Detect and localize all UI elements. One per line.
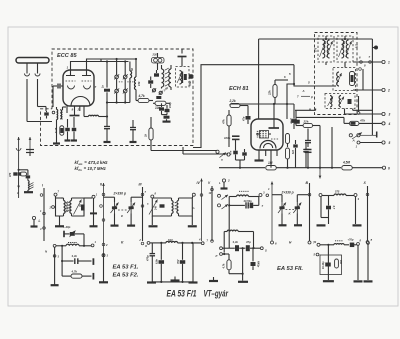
label 7: [262, 204, 264, 208]
annotation A: [302, 89, 305, 93]
gang link dashed: [118, 210, 128, 218]
variable capacitor gang B: [127, 197, 142, 225]
capacitor C27 3,3n chain: [220, 245, 267, 252]
rail mid: [228, 197, 230, 249]
capacitor ant series: [9, 172, 21, 178]
label 2x330p b: [281, 190, 294, 194]
label ECH 81: [229, 86, 249, 92]
svg-text:575: 575: [355, 44, 358, 49]
wire grid feed: [63, 107, 67, 110]
terminal 5: [382, 141, 391, 145]
rail B: [306, 181, 316, 245]
capacitor C13 100p: [303, 143, 309, 168]
svg-text:575: 575: [335, 190, 340, 194]
capacitor ratio det: [183, 72, 187, 84]
resistor R1 4,7k: [136, 94, 153, 103]
label K: [121, 241, 124, 245]
svg-text:10-40p: 10-40p: [322, 261, 325, 269]
tube ECC85 anode right: [82, 71, 91, 76]
terminal 4: [382, 122, 391, 126]
svg-text:4,7: 4,7: [332, 205, 335, 210]
wire: [157, 53, 159, 70]
svg-text:A: A: [302, 89, 305, 93]
wire: [364, 244, 373, 281]
terminal 5 wire: [356, 141, 382, 149]
label EA 53 F/1 VT-gyar: [167, 289, 229, 300]
label 2x330p: [113, 192, 127, 196]
capacitor FM ant coupling: [44, 112, 49, 115]
pin labels 9 2: [72, 108, 80, 112]
svg-text:22k: 22k: [268, 90, 272, 96]
terminal 1: [382, 60, 390, 64]
capacitor C10 100p: [224, 136, 240, 147]
label +-20p: [63, 225, 71, 229]
rail II: [100, 183, 108, 254]
svg-text:g: g: [120, 214, 123, 218]
svg-text:EA 53 F/1: EA 53 F/1: [167, 289, 197, 300]
variable capacitor gang C1: [272, 195, 287, 226]
resistor R2 10k: [153, 101, 170, 110]
capacitor C11 220p: [290, 116, 297, 129]
coil IF1 primary: [320, 40, 326, 58]
capacitor C20 470p: [147, 243, 156, 282]
switch band sel: [349, 132, 377, 143]
wire IF out lower: [183, 147, 228, 154]
ground: [209, 277, 218, 281]
capacitor pad: [84, 193, 98, 214]
variable capacitor FM tune b: [123, 62, 128, 103]
core T2 dots: [174, 202, 176, 211]
resistor R9 1M: [266, 161, 341, 170]
terminal: [53, 255, 59, 259]
tube ECH81 grids: [257, 131, 267, 137]
svg-text:1n: 1n: [102, 85, 105, 88]
capacitor C4: [159, 103, 167, 114]
dashed box ratio det can: [176, 67, 190, 88]
capacitor C25 70p: [348, 238, 357, 247]
coil row3: [320, 241, 349, 245]
terminal 8b: [357, 238, 362, 245]
wire IF out upper: [151, 150, 217, 152]
label 2-8p: [162, 85, 170, 93]
coil oscillator: [89, 115, 99, 116]
coil FM antenna L2: [61, 110, 62, 119]
svg-text:3,3n: 3,3n: [72, 254, 78, 258]
svg-text:1M: 1M: [268, 161, 273, 165]
resistor R3 1k: [144, 117, 154, 151]
wire bus upper: [101, 58, 137, 63]
svg-text:610: 610: [168, 238, 173, 242]
wire AVC down: [319, 128, 321, 169]
svg-text:β: β: [310, 95, 313, 99]
tube ECC85 inner arc: [71, 97, 90, 107]
wire det out: [353, 55, 382, 68]
wire branch: [18, 169, 28, 176]
resistor R14 4,7k: [223, 254, 232, 274]
svg-text:2,2k: 2,2k: [229, 99, 236, 103]
annotation 7: [297, 95, 313, 99]
rail IV: [197, 179, 203, 242]
antenna arrow aux: [29, 137, 32, 156]
capacitor C cath2: [71, 117, 77, 141]
tube ECC85 grid right: [82, 80, 92, 82]
coil osc tuning: [134, 59, 141, 101]
capacitor IF3: [350, 72, 355, 86]
terminal: [216, 253, 230, 258]
svg-text:A: A: [352, 139, 355, 143]
gang link dashed C: [286, 210, 295, 216]
wire: [354, 245, 363, 281]
dashed box IF can1: [318, 36, 334, 62]
core T1: [64, 202, 70, 212]
svg-text:L: L: [39, 219, 41, 223]
wire anode right to bus: [87, 59, 137, 71]
svg-text:40-50p: 40-50p: [243, 199, 253, 203]
coil L det: [152, 53, 165, 64]
terminal 3b: [259, 191, 265, 197]
svg-text:3: 3: [389, 113, 391, 117]
tube ECH81 triode grid: [256, 131, 279, 140]
label 47p b: [245, 240, 251, 244]
capacitor C6b: [148, 77, 153, 89]
label N: [45, 250, 48, 254]
label H: [289, 241, 292, 245]
variable capacitor gang A: [104, 197, 119, 225]
capacitor C6a 68p: [154, 70, 159, 77]
wire dipole left lead: [25, 63, 30, 122]
terminal 2 gnd: [219, 179, 230, 189]
wire det out 2: [353, 68, 382, 90]
svg-text:100p: 100p: [224, 136, 231, 140]
svg-text:1: 1: [388, 61, 390, 65]
resistor R12 47k: [344, 117, 382, 125]
capacitor C17: [305, 129, 311, 148]
svg-text:47k: 47k: [222, 119, 226, 125]
terminal 3: [382, 112, 391, 116]
svg-text:VT–gyár: VT–gyár: [204, 289, 229, 300]
wire dipole right lead: [35, 63, 40, 107]
label EA 53 FII: [277, 266, 303, 272]
box padder unit: [320, 255, 342, 275]
chain x104: [99, 253, 109, 282]
ground: [317, 197, 329, 226]
capacitor grid left: [53, 84, 63, 108]
antenna arrow main: [16, 137, 21, 198]
dipole antenna bar: [16, 58, 49, 64]
arrow down: [17, 176, 20, 195]
coil IF4 secondary: [339, 96, 345, 108]
svg-text:4,7k: 4,7k: [138, 94, 145, 98]
capacitor C cath1: [65, 119, 71, 141]
wire to FM input coil: [38, 107, 47, 112]
coil T1 secondary loop: [70, 198, 84, 216]
capacitor C5 1n: [130, 120, 137, 142]
capacitor C14 47n: [230, 147, 238, 160]
tube ECH81 envelope: [251, 119, 283, 150]
svg-text:1.: 1.: [17, 191, 20, 195]
wire terminal3: [345, 109, 382, 115]
dashed box IF can3: [333, 68, 356, 91]
rail III: [139, 183, 147, 245]
dashed box ECC85 unit: [41, 49, 194, 146]
svg-text:g: g: [144, 244, 147, 248]
variable capacitor gang C2: [293, 195, 308, 226]
resistor ant: [20, 172, 27, 176]
svg-text:2: 2: [227, 179, 230, 183]
svg-text:5: 5: [389, 141, 391, 145]
ferrite bead T2: [160, 204, 165, 207]
svg-text:150p: 150p: [188, 81, 191, 87]
svg-text:150: 150: [137, 81, 141, 86]
coil IF4 primary: [328, 96, 334, 108]
label IF2: [355, 44, 358, 49]
wire osc out vertical: [193, 65, 294, 148]
svg-text:S: S: [265, 249, 267, 253]
capacitor ant aux: [26, 150, 34, 157]
rail V: [208, 181, 213, 242]
wire plate to IF: [259, 39, 373, 119]
coil discr primary: [162, 65, 164, 89]
trimmer capacitor: [54, 126, 64, 136]
capacitor C7: [156, 96, 161, 99]
tube ECC85 cathode right: [84, 86, 91, 90]
resistor R7: [286, 133, 290, 147]
capacitor C24 45p: [251, 248, 260, 270]
terminal T2 out: [192, 193, 195, 198]
resistor R4 2,2k: [229, 99, 249, 111]
wire pins down: [266, 151, 277, 168]
svg-text:47k: 47k: [291, 149, 294, 155]
svg-text:650: 650: [339, 260, 342, 265]
pin 7 label: [95, 85, 97, 89]
terminal 7b: [367, 238, 373, 244]
svg-text:+-20p: +-20p: [63, 225, 71, 229]
svg-text:47k: 47k: [359, 118, 365, 122]
pin 1 label: [67, 66, 69, 70]
wire: [51, 247, 59, 285]
wire: [101, 59, 107, 88]
resistor R10 4,5M: [342, 161, 383, 170]
wire: [371, 130, 373, 135]
svg-text:N45p: N45p: [257, 261, 260, 268]
svg-text:L: L: [219, 181, 221, 185]
ferrite bead T1: [78, 204, 85, 211]
coil IF2 secondary: [346, 40, 352, 58]
terminal 5b: [314, 253, 319, 257]
svg-text:70V: 70V: [177, 259, 180, 264]
terminal 2 tap: [49, 206, 56, 210]
capacitor series a: [230, 202, 249, 208]
svg-text:g: g: [314, 240, 317, 244]
label 3,3n: [72, 254, 78, 258]
switch k1: [218, 194, 229, 199]
tube ECH81 inner arc: [260, 141, 276, 149]
ground bus row3: [147, 281, 198, 283]
svg-text:P: P: [216, 254, 218, 258]
svg-text:220p: 220p: [290, 117, 293, 124]
label IF freq line2: [75, 166, 107, 172]
capacitor C9 47p: [243, 111, 251, 124]
terminal 6: [382, 166, 390, 170]
wire gang bottom bus: [107, 101, 130, 103]
wire: [323, 244, 334, 282]
trimmer 20p: [64, 231, 84, 246]
trimmer discr a: [152, 88, 156, 92]
resistor R13 4,7k: [61, 246, 93, 280]
label EA 53 F2: [113, 273, 139, 279]
label 150p: [188, 81, 191, 87]
terminal T2 in: [147, 192, 157, 206]
capacitor C1 1n: [102, 85, 111, 118]
trimmer discr b: [159, 91, 163, 95]
capacitor C16: [294, 120, 300, 124]
capacitor series b: [250, 197, 259, 209]
ground: [90, 213, 98, 226]
wire can tops: [325, 36, 346, 68]
wire: [192, 243, 194, 282]
svg-text:220: 220: [152, 53, 158, 57]
coil T1 primary loop: [56, 198, 66, 216]
capacitor C15: [236, 149, 247, 168]
wire: [294, 65, 334, 86]
svg-text:240: 240: [155, 205, 158, 211]
capacitor C8 150p: [165, 102, 173, 115]
capacitor det gnd: [163, 115, 171, 122]
label 40-50p: [243, 199, 253, 203]
capacitor C3 50p: [130, 62, 134, 103]
wire screen feed: [230, 103, 294, 119]
svg-text:EA 53 F1.: EA 53 F1.: [113, 265, 139, 271]
resistor R6 22k: [268, 72, 292, 104]
rail X: [363, 181, 373, 243]
capacitor C12: [293, 140, 298, 168]
coil AM ant: [28, 178, 34, 191]
capacitor cathode bypass: [70, 107, 80, 116]
coil T2 secondary loop: [177, 198, 196, 216]
terminal g: [314, 240, 321, 247]
svg-text:150p: 150p: [169, 102, 172, 108]
coil IF2 primary: [339, 40, 345, 58]
rail I: [40, 184, 45, 242]
svg-text:4,7k: 4,7k: [71, 269, 78, 273]
label 5: [308, 81, 310, 85]
svg-text:575: 575: [315, 47, 318, 52]
resistor R11 22k: [296, 117, 320, 128]
capacitor top bar: [178, 49, 187, 67]
rail VI: [266, 182, 277, 246]
svg-text:ECH 81: ECH 81: [229, 86, 249, 92]
wire to FM input coil lower: [27, 121, 52, 123]
svg-text:47p: 47p: [245, 240, 251, 244]
svg-text:4,5M: 4,5M: [342, 161, 350, 165]
arrow AVC to lower: [319, 169, 322, 179]
terminal T1 in: [54, 190, 60, 199]
capacitor C26 10-40p: [322, 261, 331, 269]
capacitor C18: [305, 150, 312, 169]
svg-text:EA 53 FII.: EA 53 FII.: [277, 266, 303, 272]
svg-text:2×330 p: 2×330 p: [281, 190, 294, 194]
coil padder 2: [224, 230, 254, 252]
coil osc padder: [229, 191, 259, 196]
coil 650: [335, 259, 342, 268]
dashed box IF can2: [337, 36, 353, 62]
svg-text:4,7k: 4,7k: [223, 263, 226, 269]
coil ratio det: [177, 71, 183, 85]
svg-text:2×330 p: 2×330 p: [113, 192, 127, 196]
svg-text:22k: 22k: [303, 119, 309, 123]
ground T3: [188, 216, 197, 226]
coil discr secondary: [169, 65, 171, 90]
label 3,3n: [233, 240, 239, 244]
variable capacitor FM tune a: [114, 59, 119, 103]
label IF freq line1: [75, 160, 109, 166]
wire: [357, 96, 360, 114]
svg-text:470: 470: [9, 172, 12, 178]
svg-text:2: 2: [77, 108, 80, 112]
wire: [53, 120, 60, 144]
label IF1: [315, 47, 318, 52]
wire AVC bus: [219, 167, 289, 169]
switch band a: [216, 150, 230, 161]
wire osc coil: [84, 106, 107, 117]
capacitor branch: [26, 175, 31, 178]
terminal L: [31, 216, 41, 226]
ground T2: [149, 216, 158, 226]
ground T1: [55, 216, 64, 226]
label ECC 85: [57, 53, 77, 59]
capacitor det out: [189, 74, 193, 79]
coil IF1 secondary: [327, 40, 333, 58]
svg-text:1k: 1k: [144, 133, 148, 137]
svg-text:3,3n: 3,3n: [233, 240, 239, 244]
svg-text:2: 2: [387, 89, 390, 93]
coil T2 primary loop: [152, 198, 173, 216]
switch k2: [218, 204, 229, 209]
terminal 2: [382, 88, 390, 92]
wire: [334, 85, 336, 87]
variable arrow T1: [74, 200, 82, 215]
svg-text:47p: 47p: [243, 116, 246, 122]
svg-text:6: 6: [388, 166, 390, 170]
tube ECC85 anode left: [66, 71, 75, 76]
terminal: [354, 194, 360, 202]
ground b: [353, 197, 362, 226]
tube ECC85 envelope: [63, 70, 94, 106]
wire bus right: [371, 39, 373, 130]
wire: [47, 111, 55, 119]
dashed box IF unit: [315, 33, 358, 115]
variable arrow T2: [149, 200, 158, 215]
tube ECC85 grid left: [66, 80, 76, 82]
ground: [24, 191, 33, 193]
tube ECH81 anode: [269, 119, 280, 128]
coil 610: [144, 238, 201, 248]
capacitor heater 3,3n: [62, 258, 93, 265]
resistor R8 47k: [286, 148, 295, 168]
wire: [229, 248, 248, 282]
label EA 53 F1: [113, 265, 139, 271]
capacitor C19: [326, 196, 335, 225]
ground tube cathode: [255, 151, 264, 161]
capacitor C2: [104, 117, 111, 143]
coil AM osc: [319, 190, 354, 197]
wire grid3 branch: [287, 83, 295, 119]
capacitor C21 6,8n: [156, 243, 164, 282]
svg-text:ECC 85: ECC 85: [57, 53, 77, 59]
core hatch: [165, 68, 169, 86]
dashed box IF can4: [325, 94, 355, 109]
ground: [171, 277, 180, 281]
